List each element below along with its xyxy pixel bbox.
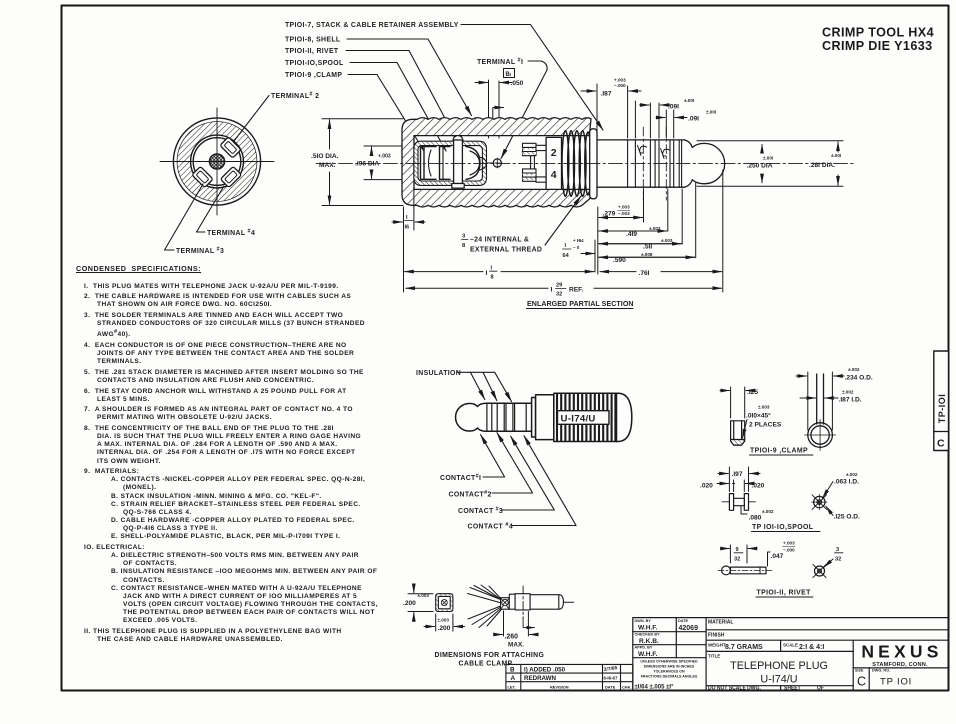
callout terminal #3 xyxy=(165,184,225,255)
terminal 4 lug (end view) xyxy=(220,166,241,187)
terminal 3 lug (end view) xyxy=(192,166,213,187)
svg-text:I: I xyxy=(491,266,493,272)
stack base plate with solder terminals 2 and 4 xyxy=(546,137,561,189)
enlarged partial section caption xyxy=(527,300,634,309)
svg-text:8: 8 xyxy=(462,243,466,249)
callout terminal #4 xyxy=(197,186,256,237)
svg-text:.047: .047 xyxy=(771,553,784,560)
svg-text:.28I DIA.: .28I DIA. xyxy=(809,162,835,169)
svg-text:APPD. BY: APPD. BY xyxy=(635,646,653,650)
svg-text:2:I & 4:I: 2:I & 4:I xyxy=(799,644,824,651)
svg-text:2/7/68: 2/7/68 xyxy=(603,665,617,673)
overall plug view: collar xyxy=(532,395,554,440)
main centerline xyxy=(316,162,855,164)
svg-text:SCALE: SCALE xyxy=(783,643,798,648)
svg-text:TPIOI-9 ,CLAMP: TPIOI-9 ,CLAMP xyxy=(750,448,808,455)
svg-text:.590: .590 xyxy=(613,257,626,264)
svg-text:REVISION: REVISION xyxy=(550,684,569,689)
svg-text:REDRAWN: REDRAWN xyxy=(524,675,556,682)
svg-text:4: 4 xyxy=(551,169,557,181)
stack connector and lugs xyxy=(531,145,550,182)
svg-text:32: 32 xyxy=(734,557,740,563)
svg-text:CONTACT #3: CONTACT #3 xyxy=(458,507,503,516)
svg-text:CONTACT#I: CONTACT#I xyxy=(440,474,481,483)
dimension .279 xyxy=(598,189,644,274)
contact stack lower xyxy=(523,169,537,181)
svg-text:.250 DIA: .250 DIA xyxy=(747,163,773,170)
svg-text:+.003: +.003 xyxy=(783,541,795,546)
svg-text:–24 INTERNAL &: –24 INTERNAL & xyxy=(470,237,529,244)
terminal 2 lug (end view) xyxy=(220,137,241,158)
dimension .080 (spool waist) xyxy=(741,507,774,522)
svg-text:.5IO DIA.: .5IO DIA. xyxy=(311,153,339,160)
svg-text:64: 64 xyxy=(563,253,570,259)
svg-text:WEIGHT: WEIGHT xyxy=(708,643,726,648)
svg-text:CRIMP TOOL HX4: CRIMP TOOL HX4 xyxy=(822,26,934,40)
drawing number edge tab xyxy=(934,351,949,451)
svg-text:6-I6-67: 6-I6-67 xyxy=(604,676,618,681)
svg-text:.09I: .09I xyxy=(668,104,679,111)
svg-text:SIZE: SIZE xyxy=(855,669,864,673)
dimension .187 with extension lines xyxy=(581,78,641,139)
crimp tool note xyxy=(822,26,934,54)
svg-text:±.002: ±.002 xyxy=(762,509,774,514)
dimension .197 (spool) xyxy=(718,467,760,492)
svg-text:±.003: ±.003 xyxy=(661,238,673,243)
svg-text:.050: .050 xyxy=(511,80,524,87)
svg-text:3: 3 xyxy=(462,234,466,240)
svg-text:I: I xyxy=(486,270,488,277)
callout TP101-10 spool xyxy=(285,60,446,151)
svg-text:REF.: REF. xyxy=(569,287,583,294)
svg-text:B: B xyxy=(510,667,515,674)
svg-text:C: C xyxy=(857,675,866,689)
svg-text:±.002: ±.002 xyxy=(848,367,860,372)
svg-text:±.003: ±.003 xyxy=(438,618,450,623)
svg-text:DATE: DATE xyxy=(678,619,689,623)
svg-text:CONTACT#2: CONTACT#2 xyxy=(449,490,492,499)
svg-text:±.008: ±.008 xyxy=(641,252,653,257)
svg-text:DWN. BY: DWN. BY xyxy=(635,619,652,623)
title block texts xyxy=(635,619,828,692)
note .010 x 45 chamfer xyxy=(743,405,782,439)
dimension .234 OD / .187 ID (clamp) xyxy=(796,367,873,430)
dimension 1 1/8 xyxy=(405,240,595,281)
groove centerlines with CL symbols xyxy=(638,127,670,200)
dimension .419 xyxy=(599,189,668,238)
svg-text:±.003: ±.003 xyxy=(758,405,770,410)
dimension .260 MAX xyxy=(495,611,538,649)
svg-text:TPIOI-IO,SPOOL: TPIOI-IO,SPOOL xyxy=(285,60,344,67)
svg-text:.200: .200 xyxy=(438,625,451,632)
svg-text:±.00I: ±.00I xyxy=(831,153,841,158)
svg-text:EXTERNAL THREAD: EXTERNAL THREAD xyxy=(470,247,542,254)
svg-text:±.002: ±.002 xyxy=(842,390,854,395)
svg-text:.020: .020 xyxy=(752,483,765,490)
.281 envelope lines xyxy=(697,141,843,187)
svg-text:TPIOI-8, SHELL: TPIOI-8, SHELL xyxy=(285,37,340,44)
svg-text:.0I0×45°: .0I0×45° xyxy=(746,412,771,420)
dimension 1 29/32 REF xyxy=(406,283,722,298)
svg-text:.I87 I.D.: .I87 I.D. xyxy=(839,397,862,404)
caption dimensions for attaching cable clamp xyxy=(435,652,545,668)
dimension .250 DIA (ball) xyxy=(747,145,774,183)
clamp body and tube xyxy=(509,594,573,610)
TP101-10 spool end view xyxy=(812,494,828,510)
svg-text:±.00I: ±.00I xyxy=(706,110,716,115)
svg-text:.09I: .09I xyxy=(688,116,699,123)
dimension 1/16 xyxy=(392,187,425,292)
svg-text:TERMINAL #I: TERMINAL #I xyxy=(477,58,523,67)
callout terminal #1 xyxy=(477,58,547,159)
spool cup (in section) xyxy=(440,147,451,180)
svg-text:W.H.F.: W.H.F. xyxy=(638,625,658,632)
svg-text:.I25: .I25 xyxy=(747,389,758,396)
overall plug view: ball tip xyxy=(456,403,487,431)
callout TP101-11 rivet xyxy=(285,48,457,140)
svg-text:TERMINAL# 2: TERMINAL# 2 xyxy=(271,92,319,101)
svg-text:MATERIAL: MATERIAL xyxy=(708,620,733,626)
callout terminal #2 xyxy=(234,92,319,142)
svg-text:OF: OF xyxy=(817,686,824,692)
svg-text:− 0: − 0 xyxy=(573,245,580,250)
contact stack upper xyxy=(523,143,537,155)
dimension .091 second groove xyxy=(656,110,716,139)
clamp cup (in section) xyxy=(421,147,437,180)
end view: plug face circles xyxy=(173,118,260,205)
svg-text:CABLE CLAMP: CABLE CLAMP xyxy=(459,661,513,668)
callout TP101-8 shell xyxy=(285,37,472,116)
svg-text:TOLERANCES ON: TOLERANCES ON xyxy=(653,670,684,674)
dimension .125 (clamp) xyxy=(720,387,758,418)
terminal node circle xyxy=(487,158,503,168)
svg-text:FRACTIONS DECIMALS ANGLES: FRACTIONS DECIMALS ANGLES xyxy=(641,675,698,679)
U-174/U nameplate xyxy=(558,411,610,425)
svg-text:±.003: ±.003 xyxy=(649,226,661,231)
svg-text:9: 9 xyxy=(736,547,739,553)
svg-text:W.H.F.: W.H.F. xyxy=(638,651,658,658)
svg-text:±.00I: ±.00I xyxy=(763,156,773,161)
svg-text:BI: BI xyxy=(506,72,512,78)
svg-text:32: 32 xyxy=(556,292,562,298)
svg-text:.I87: .I87 xyxy=(601,91,612,98)
svg-text:TELEPHONE PLUG: TELEPHONE PLUG xyxy=(730,660,828,672)
svg-text:.I25 O.D.: .I25 O.D. xyxy=(834,514,861,521)
TP101-9 clamp side view xyxy=(731,421,745,445)
svg-text:UNLESS OTHERWISE SPECIFIED: UNLESS OTHERWISE SPECIFIED xyxy=(640,660,698,664)
svg-text:CHK.: CHK. xyxy=(622,684,632,689)
svg-text:A: A xyxy=(511,675,516,682)
callout insulation xyxy=(416,370,512,402)
svg-text:42069: 42069 xyxy=(679,625,699,632)
svg-text:TERMINAL #3: TERMINAL #3 xyxy=(176,247,224,256)
TP101-11 rivet end view xyxy=(813,565,826,578)
svg-text:TPIOI-II, RIVET: TPIOI-II, RIVET xyxy=(285,48,339,55)
svg-text:STAMFORD, CONN.: STAMFORD, CONN. xyxy=(872,662,928,668)
svg-text:LET.: LET. xyxy=(508,684,516,689)
svg-text:NEXUS: NEXUS xyxy=(861,642,942,662)
svg-text:±.002: ±.002 xyxy=(846,472,858,477)
svg-text:MAX.: MAX. xyxy=(508,642,524,649)
dimension .196 DIA xyxy=(355,146,412,180)
svg-text:TERMINAL #4: TERMINAL #4 xyxy=(207,229,255,238)
callout contact #4 xyxy=(468,436,577,531)
wire fan and cable assembly xyxy=(468,585,504,628)
end view crosshair xyxy=(160,108,274,215)
svg-text:I6: I6 xyxy=(405,225,410,231)
plug shaft (.281 stack) xyxy=(597,140,685,187)
cable retainer capsule (hatched rim) xyxy=(414,141,487,185)
svg-text:.4I9: .4I9 xyxy=(626,231,637,238)
svg-text:TP-IOI: TP-IOI xyxy=(937,394,947,424)
svg-text:TPIOI-II, RIVET: TPIOI-II, RIVET xyxy=(757,590,812,597)
svg-text:TITLE: TITLE xyxy=(708,654,720,659)
svg-text:8.7 GRAMS: 8.7 GRAMS xyxy=(725,644,763,651)
dimension 1/64 shoulder xyxy=(563,238,595,259)
svg-text:.I96 DIA: .I96 DIA xyxy=(355,161,379,168)
svg-text:U-I74/U: U-I74/U xyxy=(760,674,797,686)
svg-text:INSULATION: INSULATION xyxy=(416,370,461,377)
dimension .590 xyxy=(599,183,696,264)
svg-text:DO NOT SCALE DWG.: DO NOT SCALE DWG. xyxy=(708,686,761,692)
overall plug view: knurled shell body xyxy=(554,393,617,441)
callout contact #1 xyxy=(440,435,505,482)
cable ferrule xyxy=(501,598,510,610)
label TP101-11 rivet xyxy=(756,590,813,598)
svg-text:8: 8 xyxy=(491,275,494,281)
svg-text:3: 3 xyxy=(836,547,839,553)
B1 reference box xyxy=(504,69,515,78)
dimension 9/32 (rivet) xyxy=(723,545,754,563)
svg-text:DIMENSIONS ARE IN INCHES: DIMENSIONS ARE IN INCHES xyxy=(644,665,695,669)
dimension .281 DIA xyxy=(809,142,841,185)
svg-text:+.003: +.003 xyxy=(614,78,626,83)
cable clamp front view (square) xyxy=(436,594,453,612)
internal/external thread coil xyxy=(562,131,591,197)
svg-text:.279: .279 xyxy=(603,211,616,218)
dimension .200 vertical (clamp) xyxy=(403,585,433,621)
label TP101-10 spool xyxy=(752,524,821,532)
svg-text:+.003: +.003 xyxy=(618,205,630,210)
svg-text:2 PLACES: 2 PLACES xyxy=(749,422,782,429)
dimension .050 (terminal 1 offset) xyxy=(475,80,524,138)
rivet (in section) xyxy=(452,136,464,189)
NEXUS logo block xyxy=(855,642,943,689)
svg-text:−.000: −.000 xyxy=(614,83,626,88)
label TP101-9 clamp xyxy=(750,448,814,456)
dimension .510 DIA MAX xyxy=(311,119,403,206)
svg-text:±I/64 ±.005 ±I°: ±I/64 ±.005 ±I° xyxy=(635,685,675,691)
callout TP101-7 stack & cable retainer assembly xyxy=(285,22,603,130)
svg-text:TPIOI-7, STACK & CABLE RETAINE: TPIOI-7, STACK & CABLE RETAINER ASSEMBLY xyxy=(285,22,459,29)
svg-text:TPIOI-9 ,CLAMP: TPIOI-9 ,CLAMP xyxy=(285,72,342,79)
svg-text:.234 O.D.: .234 O.D. xyxy=(845,375,873,382)
svg-text:+ I⁄64: + I⁄64 xyxy=(573,238,584,243)
shell right lip ring xyxy=(590,129,597,199)
svg-text:.080: .080 xyxy=(749,515,762,522)
dimension .761 xyxy=(600,170,723,292)
title block grid xyxy=(633,618,949,691)
stay-cord ball socket (in section) xyxy=(466,147,487,180)
dimension .200 horizontal (clamp) xyxy=(424,614,465,632)
svg-text:29: 29 xyxy=(556,283,562,289)
thread callout 3/8-24 xyxy=(462,196,582,254)
svg-text:I) ADDED .050: I) ADDED .050 xyxy=(524,667,566,674)
svg-text:TP IOI: TP IOI xyxy=(880,677,912,688)
dimension .047 (rivet) xyxy=(768,541,796,567)
shell cross-section outer wall (hatched) xyxy=(402,118,591,207)
condensed specifications text xyxy=(76,265,406,647)
TP101-10 spool side view xyxy=(722,494,756,511)
dimension 3/32 (rivet end) xyxy=(824,547,843,567)
dimension .091 first groove xyxy=(640,98,695,138)
TP101-9 clamp end view xyxy=(805,374,836,451)
svg-text:−.003: −.003 xyxy=(618,211,630,216)
svg-text:.260: .260 xyxy=(505,634,519,641)
svg-text:TP IOI-IO,SPOOL: TP IOI-IO,SPOOL xyxy=(752,524,813,531)
svg-text:DATE: DATE xyxy=(605,684,616,689)
svg-text:I: I xyxy=(565,243,567,249)
shaft contact ring lines xyxy=(628,140,682,187)
svg-text:±.003: ±.003 xyxy=(418,593,430,598)
svg-text:ENLARGED PARTIAL SECTION: ENLARGED PARTIAL SECTION xyxy=(527,300,634,308)
callout TP101-9 clamp xyxy=(285,72,424,151)
svg-text:U-I74/U: U-I74/U xyxy=(561,414,596,425)
svg-text:+.003: +.003 xyxy=(378,154,391,160)
revision table xyxy=(506,664,633,690)
callout contact #3 xyxy=(458,436,554,515)
svg-text:.76I: .76I xyxy=(639,270,650,277)
overall plug view: contact/ring section xyxy=(487,403,532,431)
svg-text:DWG. NO.: DWG. NO. xyxy=(872,669,890,673)
dimension .511 xyxy=(599,189,683,251)
svg-text:R.K.B.: R.K.B. xyxy=(639,638,659,645)
TP101-11 rivet side view xyxy=(718,566,772,575)
dimensions .020 (spool flanges) xyxy=(700,480,765,492)
svg-text:.5II: .5II xyxy=(643,244,652,251)
dimensions .063 ID / .125 OD (spool) xyxy=(823,472,861,521)
svg-text:I: I xyxy=(551,287,553,294)
svg-text:SHEET: SHEET xyxy=(784,686,801,692)
svg-text:±.00I: ±.00I xyxy=(684,98,694,103)
svg-text:CONTACT #4: CONTACT #4 xyxy=(468,522,514,531)
svg-text:−.000: −.000 xyxy=(783,548,795,553)
svg-text:C: C xyxy=(937,438,945,450)
svg-text:DIMENSIONS FOR ATTACHING: DIMENSIONS FOR ATTACHING xyxy=(435,652,545,659)
svg-text:FINISH: FINISH xyxy=(708,633,725,639)
svg-text:.063 I.D.: .063 I.D. xyxy=(834,479,859,486)
overall plug view: rounded end cap xyxy=(617,393,632,441)
svg-text:2: 2 xyxy=(551,147,557,159)
svg-text:CHECKED BY: CHECKED BY xyxy=(635,633,661,637)
svg-text:.I97: .I97 xyxy=(732,471,743,478)
svg-text:CRIMP DIE Y1633: CRIMP DIE Y1633 xyxy=(822,39,933,53)
svg-text:.020: .020 xyxy=(700,483,713,490)
callout contact #2 xyxy=(449,433,533,499)
clamp section line and arrow xyxy=(523,586,534,628)
svg-text:32: 32 xyxy=(835,557,841,563)
ball tip with neck xyxy=(685,140,725,187)
